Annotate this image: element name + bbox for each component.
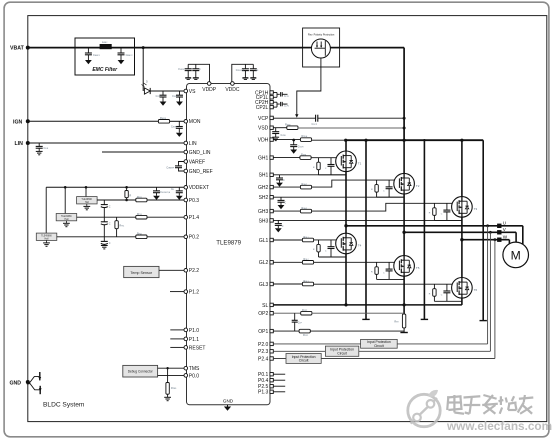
- svg-text:Circuit: Circuit: [337, 351, 347, 355]
- svg-text:CCP1: CCP1: [284, 96, 289, 98]
- svg-text:CMON: CMON: [171, 126, 178, 129]
- svg-text:OP1: OP1: [258, 329, 268, 335]
- svg-text:GL3: GL3: [259, 282, 269, 288]
- svg-text:T2: T2: [416, 184, 420, 188]
- svg-text:TLE4966K: TLE4966K: [81, 199, 92, 201]
- svg-text:LIN: LIN: [189, 141, 197, 147]
- svg-text:EMC Filter: EMC Filter: [92, 67, 118, 73]
- svg-text:GND_REF: GND_REF: [189, 169, 213, 175]
- svg-text:C: C: [109, 223, 111, 226]
- svg-text:VAREF: VAREF: [189, 159, 205, 165]
- svg-text:RGH1: RGH1: [301, 153, 306, 156]
- svg-text:Temp Sensor: Temp Sensor: [130, 271, 152, 275]
- svg-text:P1.4: P1.4: [189, 215, 200, 221]
- svg-text:GL2: GL2: [259, 260, 269, 266]
- svg-text:RESET: RESET: [189, 345, 206, 351]
- svg-text:U: U: [503, 221, 506, 226]
- svg-text:RGL3: RGL3: [304, 280, 309, 283]
- svg-text:T5: T5: [416, 266, 420, 270]
- svg-text:SH1: SH1: [259, 173, 269, 179]
- svg-text:ROP2: ROP2: [302, 309, 307, 312]
- svg-text:GND_LIN: GND_LIN: [189, 150, 211, 156]
- svg-text:CP2L: CP2L: [256, 105, 269, 111]
- svg-text:T4: T4: [358, 244, 362, 248]
- svg-text:RGH3: RGH3: [302, 207, 307, 210]
- svg-text:ROP1: ROP1: [303, 334, 308, 337]
- svg-text:Hall: Hall: [45, 238, 49, 240]
- svg-text:www.elecfans.com: www.elecfans.com: [446, 419, 552, 433]
- svg-text:RP03: RP03: [137, 196, 142, 199]
- svg-text:T1: T1: [358, 162, 362, 166]
- svg-text:Hall: Hall: [64, 219, 68, 221]
- svg-text:P1.2: P1.2: [189, 290, 200, 296]
- svg-text:M: M: [511, 249, 521, 263]
- svg-text:LIN: LIN: [15, 141, 24, 147]
- svg-text:R: R: [130, 194, 132, 197]
- svg-text:Debug Connector: Debug Connector: [128, 369, 154, 373]
- svg-text:T3: T3: [474, 207, 478, 211]
- svg-text:CVDDC,A: CVDDC,A: [236, 69, 245, 72]
- svg-text:VSD: VSD: [258, 126, 269, 132]
- svg-text:Circuit: Circuit: [299, 359, 309, 363]
- svg-text:P2.2: P2.2: [189, 268, 200, 274]
- svg-text:OP2: OP2: [258, 311, 268, 317]
- svg-text:IGN: IGN: [13, 119, 22, 125]
- svg-text:VDDEXT: VDDEXT: [189, 185, 209, 191]
- svg-text:TLE4966K: TLE4966K: [61, 216, 72, 218]
- svg-text:C: C: [109, 242, 111, 245]
- svg-text:P1.0: P1.0: [189, 328, 200, 334]
- svg-text:VDH: VDH: [258, 138, 269, 144]
- svg-text:TLE9879: TLE9879: [216, 240, 241, 247]
- svg-text:Hall: Hall: [85, 202, 89, 204]
- svg-text:RP14: RP14: [137, 213, 142, 216]
- svg-text:TLE4966K: TLE4966K: [41, 235, 52, 237]
- svg-text:Circuit: Circuit: [374, 344, 384, 348]
- svg-text:MON: MON: [189, 119, 201, 125]
- svg-text:P2.3: P2.3: [258, 349, 269, 355]
- svg-text:CCP2: CCP2: [284, 106, 289, 108]
- svg-text:P0.3: P0.3: [189, 198, 200, 204]
- svg-text:Rev. Polarity Protection: Rev. Polarity Protection: [308, 32, 335, 36]
- svg-text:CVS1: CVS1: [156, 95, 161, 98]
- svg-text:VCP: VCP: [258, 116, 269, 122]
- svg-text:GND: GND: [10, 380, 22, 386]
- svg-text:W: W: [503, 235, 508, 240]
- svg-text:SH2: SH2: [259, 195, 269, 201]
- svg-text:C: C: [109, 205, 111, 208]
- svg-text:VS: VS: [189, 89, 196, 95]
- svg-text:GH2: GH2: [258, 185, 269, 191]
- svg-text:P0.0: P0.0: [189, 373, 200, 379]
- svg-text:D: D: [146, 81, 148, 84]
- svg-text:T6: T6: [474, 288, 478, 292]
- svg-text:SL: SL: [262, 303, 268, 309]
- svg-text:RGL2: RGL2: [304, 258, 309, 261]
- svg-text:P2.4: P2.4: [258, 356, 269, 362]
- svg-text:BLDC System: BLDC System: [43, 401, 85, 408]
- svg-text:GL1: GL1: [259, 238, 269, 244]
- svg-text:RGL1: RGL1: [304, 236, 309, 239]
- svg-text:SH3: SH3: [259, 218, 269, 224]
- svg-text:RP14: RP14: [120, 224, 125, 227]
- svg-text:CVSD: CVSD: [281, 134, 287, 137]
- svg-text:VDDC: VDDC: [225, 87, 240, 93]
- svg-text:P1.1: P1.1: [189, 337, 200, 343]
- svg-text:CVAREF: CVAREF: [166, 167, 174, 170]
- svg-text:RGH2: RGH2: [302, 183, 307, 186]
- svg-text:RTMS: RTMS: [171, 387, 177, 390]
- svg-text:CVDDP: CVDDP: [178, 69, 185, 71]
- svg-text:VBAT: VBAT: [10, 46, 25, 52]
- svg-text:RP02: RP02: [137, 233, 142, 236]
- svg-text:GND: GND: [223, 399, 234, 404]
- svg-text:CVS2: CVS2: [172, 95, 177, 98]
- svg-text:GH1: GH1: [258, 156, 269, 162]
- svg-text:P2.0: P2.0: [258, 342, 269, 348]
- svg-text:P1.3: P1.3: [258, 390, 269, 396]
- svg-text:TMS: TMS: [189, 366, 200, 372]
- svg-text:CVDDEXT,A: CVDDEXT,A: [160, 191, 171, 194]
- svg-text:GH3: GH3: [258, 209, 269, 215]
- svg-text:VDDP: VDDP: [202, 87, 217, 93]
- svg-text:P0.2: P0.2: [189, 235, 200, 241]
- svg-text:CVDH: CVDH: [298, 146, 304, 149]
